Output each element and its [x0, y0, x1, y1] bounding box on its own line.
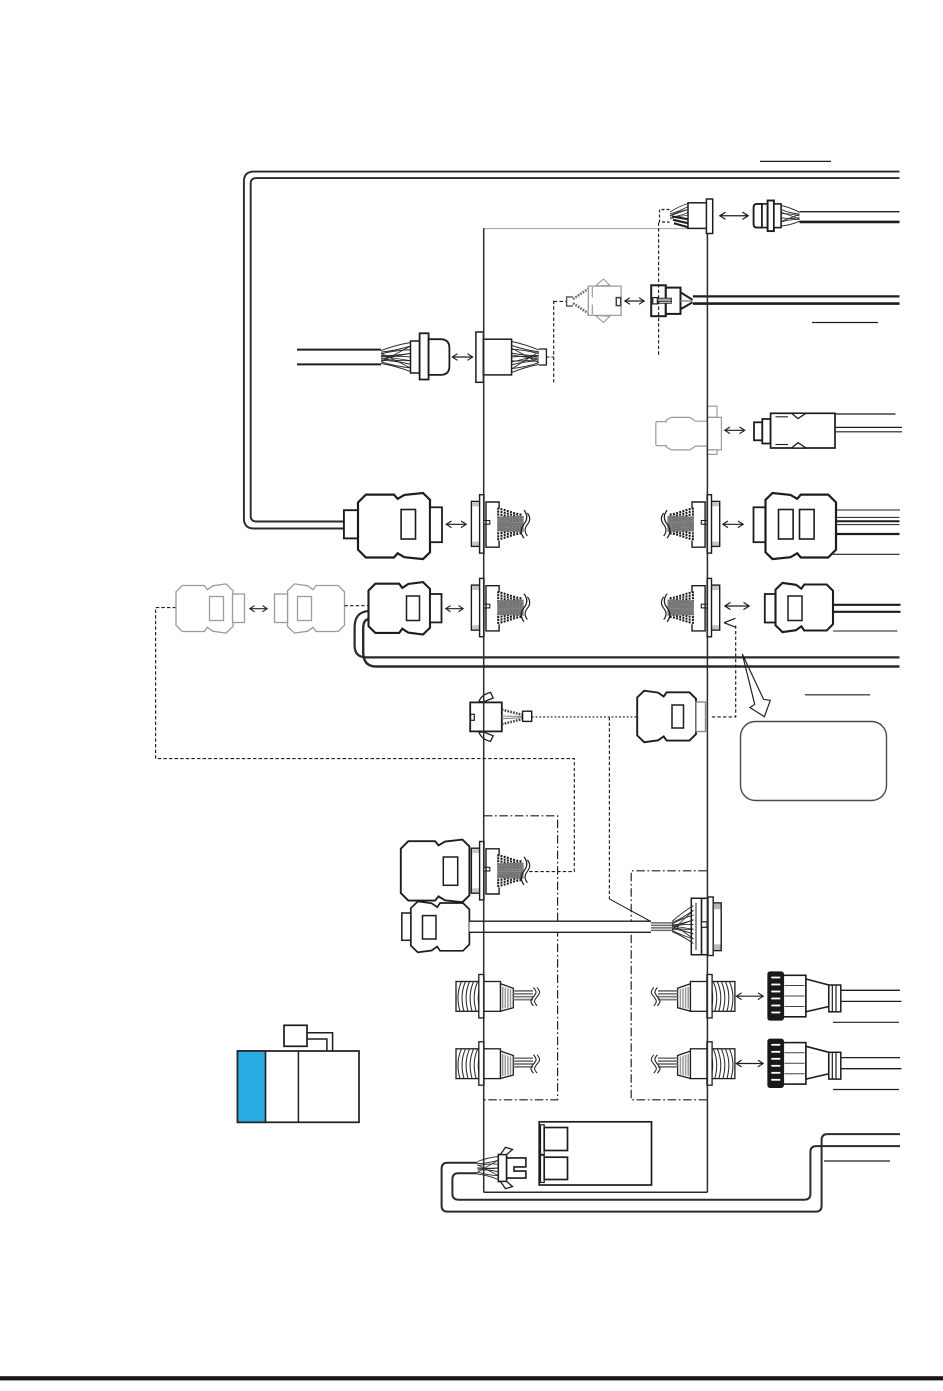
label underline callout — [805, 694, 870, 696]
row2 right cable — [693, 295, 900, 297]
row6 dashed branch line — [156, 608, 575, 872]
diagnostic connector 2 (black) — [768, 1039, 783, 1087]
row6 connector B (existing) — [288, 584, 345, 633]
row6 connector C — [369, 582, 431, 634]
row3 left connector collar — [411, 341, 420, 373]
row9 dashed drop — [608, 717, 610, 899]
row4 right wires — [835, 426, 902, 428]
engine bulkhead round connector 1 — [456, 975, 540, 1018]
battery blue cell — [238, 1051, 266, 1122]
control unit box — [539, 1122, 651, 1185]
mating arrow row5 right — [724, 523, 742, 525]
row7 dotted link — [532, 716, 637, 718]
label underline row2 — [812, 322, 878, 324]
diagnostic connector 1 (black) — [768, 972, 783, 1020]
mating arrow row6 c — [447, 608, 462, 610]
row6 left bulkhead takeout — [471, 578, 529, 636]
harness trunk top edge (gray) — [484, 228, 689, 230]
row4 left connector (existing, gray) — [656, 417, 722, 450]
row9 wire fan — [672, 906, 694, 922]
row2 right connector wires — [681, 292, 693, 300]
row5 right bulkhead takeout — [661, 495, 719, 553]
row1 left connector wire fan — [670, 204, 688, 213]
harness trunk bottom edge — [484, 1191, 708, 1193]
row1 right cable — [800, 211, 900, 213]
row6 right cable — [833, 604, 901, 606]
row3 right wire fan — [512, 342, 539, 351]
mating arrow row3 — [454, 356, 472, 358]
battery sensor square — [284, 1025, 307, 1046]
label underline bottom cable — [824, 1160, 890, 1162]
mating arrow row5 left — [448, 523, 466, 525]
row2 dashed link — [554, 300, 567, 302]
row8 bulkhead takeout — [471, 842, 529, 900]
harness trunk left rail — [483, 228, 485, 1192]
row1 right connector wire fan — [781, 206, 799, 213]
row2 takeout bracket — [567, 297, 573, 306]
row2 middle connector bottom latch — [596, 316, 610, 323]
row2 right connector — [651, 285, 666, 316]
row6 dashed link b-c — [345, 605, 369, 607]
row5 left bulkhead takeout — [471, 495, 529, 553]
bottom connector wire fan — [478, 1157, 499, 1162]
row2 middle connector left tabs — [591, 287, 593, 298]
mating arrow row2 — [626, 300, 643, 302]
row1 right connector body — [754, 204, 762, 228]
row5 right wires — [836, 509, 900, 511]
mating arrow row6 a-b — [251, 608, 266, 610]
row7 dashed return link — [712, 626, 736, 717]
row5 left connector nose — [430, 507, 442, 542]
row5 left connector stub — [344, 510, 358, 538]
row3 right connector flange — [476, 332, 484, 382]
row3 left cable — [297, 349, 381, 351]
harness trunk right rail — [706, 233, 708, 1192]
row2 middle connector top latch — [596, 279, 610, 286]
row5 left connector window — [401, 510, 415, 540]
label underline row6 cable — [833, 630, 898, 632]
bottom connector — [498, 1155, 506, 1182]
row3 takeout bracket — [539, 349, 547, 365]
control unit terminal bars — [541, 1125, 545, 1155]
row9 wire neck — [651, 922, 672, 924]
battery divider — [297, 1051, 299, 1122]
mating arrow round1 — [738, 995, 763, 997]
label underline row10 cable — [833, 1089, 899, 1091]
row6 right bulkhead takeout — [661, 578, 719, 636]
label underline row4 — [829, 413, 896, 415]
row1 left connector body — [688, 203, 707, 229]
bottom cable — [442, 1134, 900, 1212]
cab-side dash-dot box — [631, 871, 707, 1100]
main cable loop (top-left) — [244, 172, 900, 529]
engine-side dash-dot box — [484, 816, 558, 1100]
row5 right connector windows — [779, 510, 794, 540]
callout box — [741, 722, 887, 801]
row9 connector body — [411, 901, 470, 952]
row7 left connector — [479, 692, 493, 702]
mating arrow round2 — [738, 1063, 763, 1065]
mating arrow row6 right — [726, 605, 748, 607]
row6 right connector body — [776, 583, 834, 632]
mating arrow row1 — [721, 215, 747, 217]
row3 left connector flange — [420, 333, 429, 379]
row3 dashed drop — [553, 301, 555, 383]
row9 harness cable — [469, 921, 651, 932]
row6 heavy branch cable — [355, 611, 900, 658]
engine bulkhead round connector 2 — [456, 1042, 540, 1085]
row3 left wire fan — [381, 343, 411, 351]
row5 right connector body — [766, 493, 837, 559]
cab bulkhead round connector 1 — [651, 975, 735, 1018]
label underline row5 cable — [833, 553, 900, 555]
row3 left connector body — [429, 339, 450, 375]
row2 takeout wires — [573, 289, 588, 299]
row3 right connector body — [483, 339, 511, 375]
row4 right connector — [754, 422, 762, 440]
row6 right connector window — [788, 596, 802, 621]
callout leader arrow — [742, 654, 770, 717]
row1 left connector flange — [706, 199, 712, 234]
row9 right connector — [691, 898, 701, 954]
row7 right connector — [637, 691, 696, 743]
control unit terminals — [544, 1128, 567, 1151]
battery box — [238, 1051, 360, 1122]
battery sensor wire — [307, 1033, 333, 1051]
cab bulkhead round connector 2 — [651, 1042, 735, 1085]
page bottom rule — [0, 1376, 943, 1380]
row9 right connector cap — [713, 903, 721, 951]
row2 middle connector lock notch — [616, 298, 620, 306]
row7 left takeout wires — [502, 710, 523, 715]
row2 middle connector body — [588, 286, 621, 315]
row6 connector A (existing) — [176, 584, 233, 633]
row8 connector body — [401, 840, 470, 903]
row6 right connector stub — [765, 594, 776, 623]
row5 right connector stub — [754, 507, 766, 542]
label underline row9 cable — [833, 1021, 899, 1023]
row5 left connector body — [358, 493, 430, 559]
row7 takeout plate — [523, 711, 532, 721]
row3 dashed link — [546, 356, 553, 358]
row9 leader diagonal — [609, 899, 651, 922]
label underline top-right — [760, 160, 831, 162]
row1 branch dashed drop (over row2) — [658, 223, 660, 357]
mating arrow row4 — [726, 429, 744, 431]
row1 dashed takeout bracket — [660, 210, 670, 223]
